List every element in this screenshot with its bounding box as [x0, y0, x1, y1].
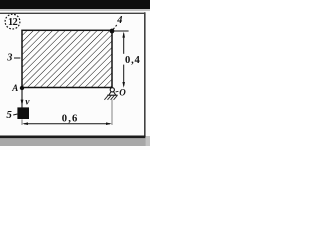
figure frame top line: [0, 12, 145, 13]
pivot O (hinge support at bottom-right corner): [104, 88, 117, 100]
extension line below pivot: [111, 100, 113, 125]
node B dot (top-right corner): [110, 29, 115, 34]
velocity arrowhead v: [21, 100, 24, 106]
horizontal dimension line 0,6: [22, 122, 112, 125]
svg-text:5: 5: [6, 109, 12, 121]
figure number circle 12: [5, 14, 20, 29]
extension line from top-right corner: [112, 30, 129, 32]
extension line below weight: [21, 119, 23, 125]
svg-text:A: A: [11, 83, 18, 93]
vertical dimension line 0,4: [122, 32, 125, 88]
leader dash to label O: [116, 90, 119, 93]
svg-text:3: 3: [6, 53, 12, 64]
figure frame bottom line: [0, 136, 145, 139]
node A dot (bottom-left corner): [20, 86, 24, 90]
svg-text:12: 12: [8, 17, 18, 28]
plate (hatched rectangle): [22, 30, 112, 87]
svg-text:O: O: [119, 88, 126, 98]
figure frame right line: [144, 12, 146, 136]
bottom scan shadow band: [0, 138, 150, 146]
leader dash to label 5: [13, 114, 17, 115]
page background: [0, 0, 150, 150]
string from A to weight: [21, 88, 23, 108]
top scan black band: [0, 0, 150, 9]
weight 5 (black square): [17, 107, 29, 119]
leader (dashed) to label 4: [113, 24, 117, 29]
svg-text:4: 4: [116, 15, 122, 26]
svg-text:0,6: 0,6: [62, 114, 79, 125]
svg-text:0,4: 0,4: [125, 55, 141, 66]
